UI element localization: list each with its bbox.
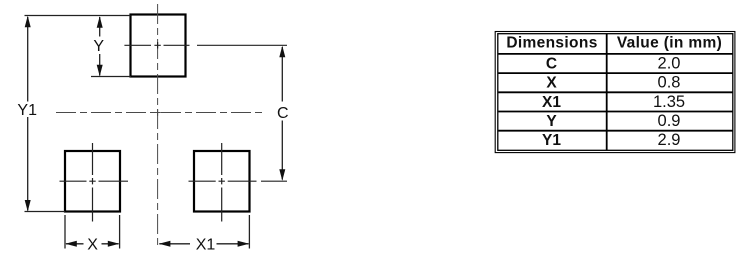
pad P1 (top land)	[131, 15, 186, 77]
dimension X line	[66, 243, 119, 245]
extension line Y1 bottom	[25, 211, 66, 213]
svg-text:Dimensions: Dimensions	[506, 35, 597, 52]
table row lines	[498, 54, 732, 131]
extension line Y bottom	[91, 76, 131, 78]
svg-text:Y1: Y1	[542, 132, 561, 149]
table outer border	[495, 32, 735, 153]
table column line	[606, 34, 608, 151]
dimension C line	[281, 47, 283, 180]
extension line X right	[119, 215, 121, 249]
centerline vertical (main axis)	[157, 4, 159, 246]
pad P2 (bottom-left land)	[65, 151, 120, 212]
dimension X1 line	[159, 243, 248, 245]
svg-text:Y: Y	[93, 38, 104, 55]
extension line X1 right	[248, 215, 250, 249]
svg-text:X1: X1	[196, 236, 216, 253]
dimension Y1 arrow up	[25, 16, 31, 28]
svg-text:Y1: Y1	[17, 102, 37, 119]
crosshair pad P2	[60, 143, 129, 222]
svg-text:X: X	[546, 75, 557, 92]
center mark pad P3	[219, 178, 225, 184]
svg-text:Value (in mm): Value (in mm)	[617, 35, 722, 52]
svg-text:0.8: 0.8	[658, 74, 681, 92]
svg-text:1.35: 1.35	[653, 93, 685, 111]
dimension Y arrow up	[97, 16, 103, 28]
crosshair pad P3	[189, 143, 288, 222]
dimension X arrow left	[65, 241, 77, 247]
svg-text:C: C	[277, 105, 289, 122]
dimension C arrow up	[279, 46, 285, 58]
svg-text:X1: X1	[542, 94, 561, 111]
dimension Y1 line	[27, 17, 29, 211]
crosshair pad P1	[124, 44, 287, 46]
svg-text:0.9: 0.9	[658, 112, 681, 130]
dimension Y arrow down	[97, 65, 103, 77]
center mark main axis	[154, 109, 160, 115]
svg-text:Y: Y	[546, 113, 557, 130]
dimension Y1 arrow down	[25, 200, 31, 212]
center mark pad P2	[89, 178, 95, 184]
extension line X left	[64, 215, 66, 249]
svg-text:2.9: 2.9	[658, 131, 681, 149]
svg-text:C: C	[546, 55, 557, 72]
center mark pad P1	[154, 42, 160, 48]
extension line top edge	[25, 15, 131, 17]
centerline horizontal (main axis)	[56, 112, 262, 114]
table inner border	[498, 34, 733, 151]
dimension X1 arrow left	[159, 241, 171, 247]
svg-text:2.0: 2.0	[658, 54, 681, 72]
pad P3 (bottom-right land)	[194, 151, 250, 212]
dimension X arrow right	[108, 241, 120, 247]
dimension Y line	[99, 17, 101, 76]
dimension X1 arrow right	[238, 241, 250, 247]
svg-text:X: X	[87, 236, 98, 253]
dimension C arrow down	[279, 169, 285, 181]
